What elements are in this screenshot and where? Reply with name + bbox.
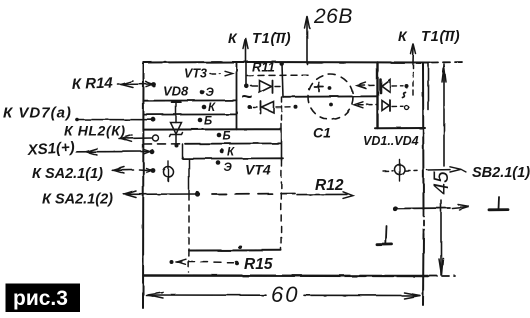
- svg-text:~: ~: [241, 87, 252, 108]
- svg-text:SB2.1(1): SB2.1(1): [472, 165, 530, 181]
- svg-text:К HL2(К): К HL2(К): [64, 123, 126, 139]
- svg-text:Э: Э: [224, 162, 233, 174]
- svg-text:26В: 26В: [313, 5, 353, 28]
- svg-text:XS1(+): XS1(+): [26, 139, 75, 159]
- svg-text:VT4: VT4: [245, 162, 271, 178]
- svg-text:60: 60: [271, 282, 299, 307]
- svg-text:К: К: [228, 30, 238, 46]
- svg-text:VD1..VD4: VD1..VD4: [363, 134, 419, 148]
- svg-text:C1: C1: [313, 125, 331, 141]
- svg-text:45: 45: [430, 171, 453, 195]
- svg-text:К: К: [398, 28, 408, 44]
- svg-text:К R14: К R14: [72, 75, 114, 93]
- svg-text:К SA2.1(2): К SA2.1(2): [42, 192, 113, 208]
- svg-text:Э: Э: [206, 87, 215, 99]
- svg-text:VD8: VD8: [163, 84, 189, 99]
- svg-text:К: К: [208, 102, 216, 114]
- svg-text:R11: R11: [252, 60, 275, 75]
- svg-text:R15: R15: [244, 256, 273, 273]
- svg-text:К SA2.1(1): К SA2.1(1): [32, 166, 103, 182]
- svg-text:R12: R12: [315, 177, 344, 194]
- svg-text:Б: Б: [204, 116, 212, 128]
- svg-text:Б: Б: [223, 131, 231, 143]
- svg-text:К: К: [227, 147, 235, 159]
- svg-text:VT3: VT3: [184, 67, 207, 81]
- svg-text:рис.3: рис.3: [13, 287, 68, 310]
- svg-text:К VD7(а): К VD7(а): [3, 105, 72, 122]
